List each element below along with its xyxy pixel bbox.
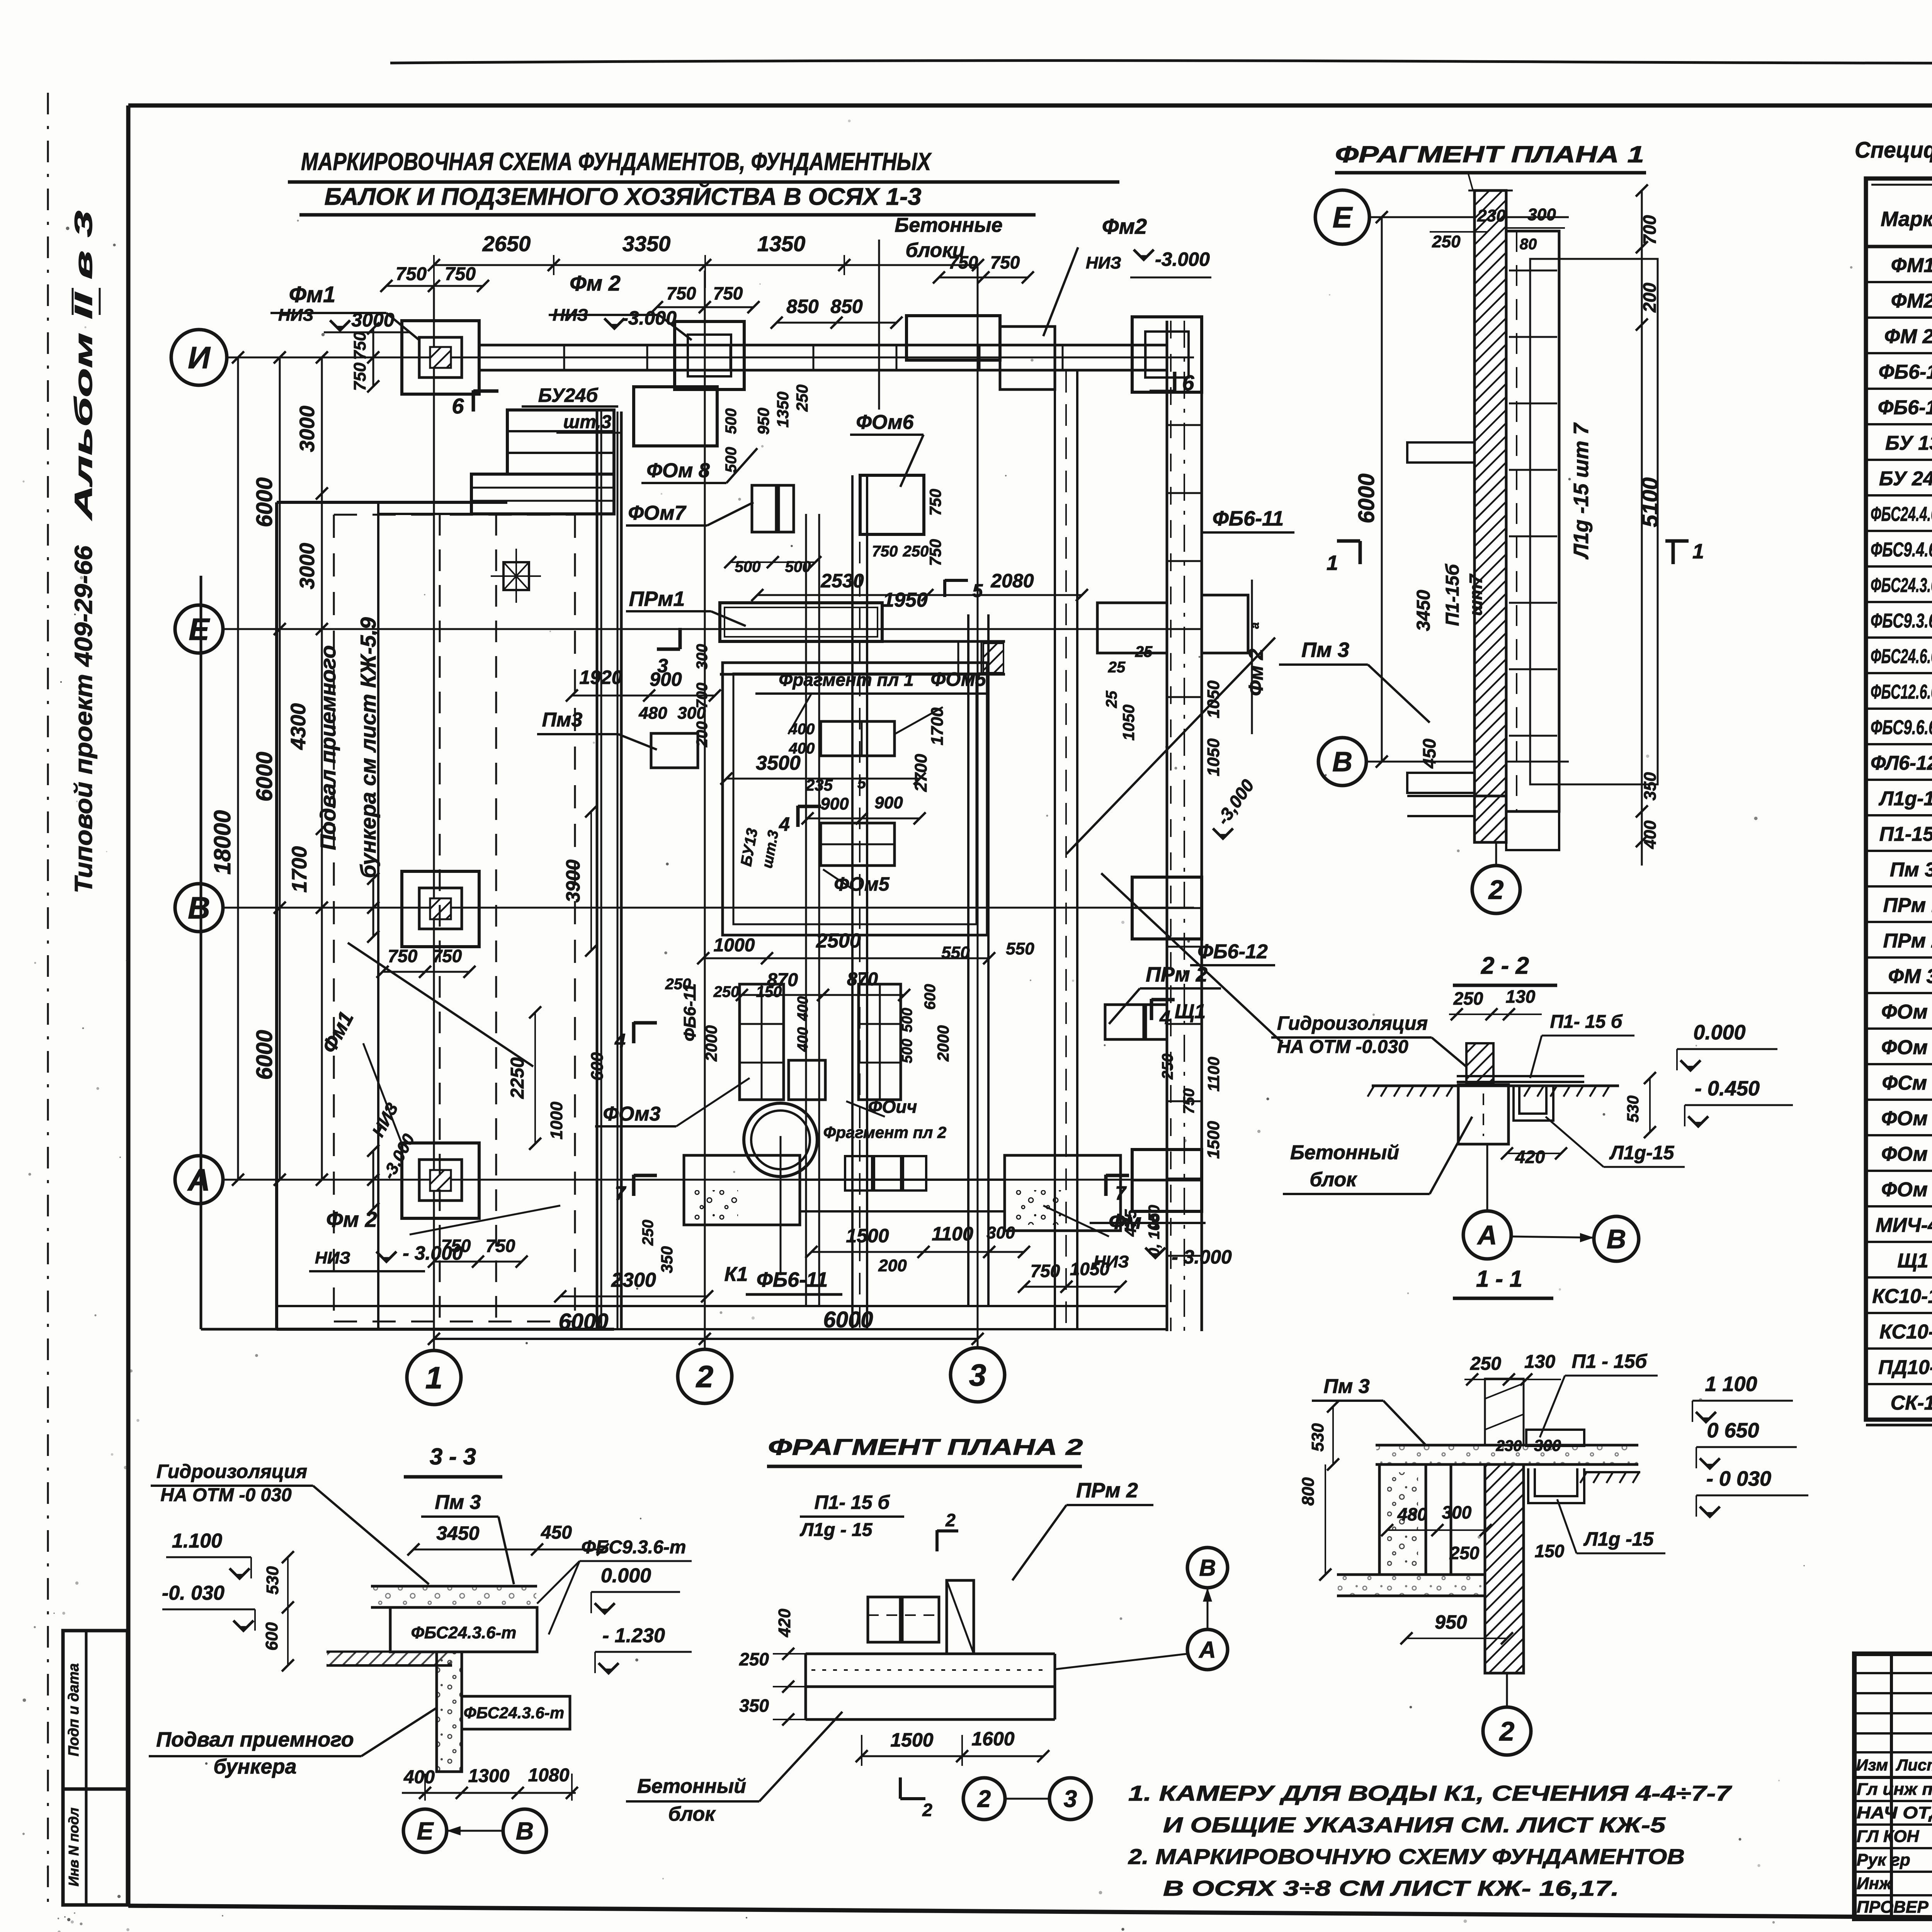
fragment1 vertical dim 6000	[1381, 217, 1383, 762]
svg-text:6000: 6000	[252, 752, 277, 801]
foundation FM at V/1	[402, 871, 479, 947]
svg-text:ФБС12.6.6-т: ФБС12.6.6-т	[1871, 681, 1932, 703]
svg-text:Л1g -15: Л1g -15	[1583, 1528, 1654, 1550]
left margin dash-dot line	[47, 93, 49, 1913]
svg-text:750: 750	[872, 543, 898, 560]
FOm5 upper rect	[821, 721, 895, 756]
svg-text:3450: 3450	[1413, 590, 1434, 631]
svg-text:300: 300	[1534, 1436, 1561, 1454]
3-3 left floor slab	[327, 1651, 452, 1653]
wall strip near axis 2	[851, 475, 854, 1329]
svg-text:230: 230	[1496, 1437, 1522, 1454]
svg-text:750: 750	[713, 283, 743, 303]
svg-text:Е: Е	[189, 612, 210, 646]
svg-text:350: 350	[739, 1696, 769, 1716]
svg-text:2000: 2000	[934, 1025, 952, 1061]
svg-text:блок: блок	[1310, 1168, 1357, 1191]
FOm5 lower rect	[821, 823, 895, 866]
svg-text:5: 5	[857, 775, 866, 792]
beam band below E	[720, 640, 1005, 643]
svg-text:шт.3: шт.3	[563, 412, 612, 432]
svg-text:250: 250	[793, 384, 811, 412]
svg-text:0 650: 0 650	[1707, 1419, 1759, 1442]
svg-text:900: 900	[874, 793, 903, 812]
svg-text:400: 400	[1641, 820, 1660, 849]
fragment1 bottom left stub	[1407, 795, 1475, 797]
svg-text:Подвал приемного: Подвал приемного	[316, 645, 340, 850]
svg-text:2700: 2700	[912, 754, 930, 792]
svg-text:25: 25	[1135, 643, 1153, 660]
svg-text:1100: 1100	[1204, 1057, 1223, 1092]
svg-text:ФОм5: ФОм5	[834, 873, 890, 895]
outer-left wall line	[200, 576, 202, 1329]
section mark 6 left	[472, 390, 475, 412]
svg-text:1. КАМЕРУ ДЛЯ ВОДЫ К1, СЕЧ: 1. КАМЕРУ ДЛЯ ВОДЫ К1, СЕЧЕНИЯ 4-4÷7-7	[1128, 1781, 1733, 1805]
svg-text:В: В	[516, 1817, 534, 1845]
fragment1 wall hatched	[1475, 190, 1506, 841]
svg-text:ФБ6-12: ФБ6-12	[1878, 396, 1932, 419]
svg-text:1.100: 1.100	[172, 1530, 222, 1552]
fragment1 axis circle E	[1315, 190, 1369, 244]
svg-text:1080: 1080	[528, 1765, 570, 1786]
svg-text:Бетонный: Бетонный	[637, 1775, 746, 1798]
svg-text:400: 400	[795, 996, 811, 1021]
3-3 lower block	[462, 1696, 570, 1729]
svg-text:СК-1: СК-1	[1891, 1392, 1932, 1414]
2-2 ground line	[1372, 1085, 1619, 1087]
big diagonal leader right	[1066, 638, 1275, 854]
svg-text:500: 500	[785, 558, 811, 575]
section mark 6 right	[1173, 372, 1177, 392]
svg-text:750: 750	[350, 362, 369, 391]
svg-text:В: В	[1607, 1224, 1626, 1254]
1-1 trough right	[1528, 1468, 1584, 1503]
axis circle A	[175, 1156, 223, 1204]
svg-text:ФОм 6: ФОм 6	[1881, 1107, 1932, 1130]
svg-text:550: 550	[1006, 939, 1034, 958]
svg-text:400: 400	[795, 1027, 811, 1052]
axis-3 wall strip	[967, 614, 969, 1306]
1-1 lid plate right	[1526, 1430, 1584, 1446]
K1 well circle	[744, 1103, 817, 1177]
1-1 central hatched wall upper	[1485, 1379, 1524, 1445]
svg-text:БУ 24б: БУ 24б	[1879, 468, 1932, 490]
fundament beam row along axis I	[479, 344, 1167, 347]
FOm3 tall block left	[740, 984, 784, 1100]
Pm3 notch	[651, 733, 698, 768]
svg-text:П1- 15 б: П1- 15 б	[1550, 1012, 1623, 1032]
dim 750/750 column I	[372, 328, 374, 386]
svg-text:ᵃ: ᵃ	[1248, 622, 1267, 629]
title block signature rows	[1854, 1800, 1932, 1802]
svg-text:300: 300	[1442, 1502, 1472, 1522]
svg-text:4300: 4300	[287, 703, 310, 750]
svg-text:0.000: 0.000	[1693, 1021, 1745, 1044]
svg-text:200: 200	[1639, 282, 1660, 313]
3-3 top slab	[371, 1585, 537, 1588]
svg-text:ПД10-1: ПД10-1	[1878, 1356, 1932, 1379]
svg-text:КС10-1А: КС10-1А	[1872, 1285, 1932, 1308]
small blocks below fragment label	[845, 1156, 872, 1190]
svg-text:1050: 1050	[1119, 704, 1138, 740]
svg-text:ФБС24.4.6-т: ФБС24.4.6-т	[1871, 503, 1932, 526]
svg-text:БАЛОК И ПОДЗЕМНОГО ХОЗЯЙ: БАЛОК И ПОДЗЕМНОГО ХОЗЯЙСТВА В ОСЯХ 1-3	[325, 183, 922, 210]
svg-text:-3.000: -3.000	[1155, 248, 1210, 270]
svg-text:25: 25	[1103, 690, 1120, 708]
svg-text:350: 350	[1641, 772, 1660, 801]
dashed service lines	[439, 514, 441, 1321]
svg-text:Фрагмент пл 1: Фрагмент пл 1	[779, 670, 913, 690]
svg-text:700: 700	[1639, 215, 1660, 245]
svg-text:530: 530	[1624, 1095, 1642, 1122]
svg-text:2300: 2300	[611, 1269, 656, 1291]
svg-text:1050: 1050	[1204, 680, 1223, 718]
svg-text:1000: 1000	[714, 935, 755, 956]
svg-text:750: 750	[486, 1236, 515, 1256]
svg-text:2: 2	[696, 1359, 714, 1394]
svg-text:А: А	[1477, 1220, 1497, 1250]
svg-text:1 - 1: 1 - 1	[1476, 1266, 1522, 1292]
svg-text:П1-15б: П1-15б	[1879, 823, 1932, 845]
svg-text:НИЗ: НИЗ	[315, 1248, 350, 1267]
blocks along axis A right	[1005, 1155, 1121, 1231]
left stamp box podp i data	[63, 1631, 128, 1789]
svg-text:ФМ 3: ФМ 3	[1888, 965, 1932, 988]
FM2a foundation top right	[1132, 317, 1202, 392]
svg-text:3350: 3350	[622, 231, 671, 256]
fr2 section mark 2 bottom	[899, 1777, 902, 1799]
svg-text:ФОм 3: ФОм 3	[1881, 1001, 1932, 1023]
right wall block at V	[1132, 877, 1202, 939]
vertical pair left of axis 2	[805, 514, 807, 1306]
svg-text:2500: 2500	[816, 930, 861, 952]
svg-text:ФОм 7: ФОм 7	[1881, 1143, 1932, 1165]
svg-text:В: В	[188, 891, 210, 925]
svg-text:1500: 1500	[846, 1225, 889, 1247]
svg-text:1350: 1350	[774, 391, 792, 427]
svg-text:4: 4	[779, 813, 790, 835]
svg-text:ПРОВЕР: ПРОВЕР	[1857, 1898, 1929, 1917]
svg-text:400: 400	[789, 721, 815, 738]
3-3 wall with dots	[437, 1652, 462, 1772]
block right of FM2 top	[1000, 327, 1055, 389]
ladder block below BU24b	[471, 474, 614, 514]
svg-text:250: 250	[739, 1649, 769, 1669]
svg-text:ФРАГМЕНТ ПЛАНА 1: ФРАГМЕНТ ПЛАНА 1	[1335, 141, 1644, 167]
FOm6 square	[860, 475, 924, 534]
PRm1 rect	[720, 603, 882, 641]
svg-text:200: 200	[878, 1256, 907, 1275]
svg-text:Инж: Инж	[1857, 1874, 1893, 1893]
svg-text:НА ОТМ -0 030: НА ОТМ -0 030	[160, 1485, 292, 1505]
svg-text:П1- 15 б: П1- 15 б	[815, 1492, 891, 1513]
axis circle E	[175, 605, 223, 653]
svg-text:1: 1	[425, 1361, 443, 1395]
svg-text:П1 - 15б: П1 - 15б	[1572, 1350, 1648, 1372]
1-1 ground right	[1584, 1471, 1640, 1473]
2-2 channel trough	[1514, 1085, 1553, 1121]
left stamp box inv n podl	[63, 1789, 128, 1905]
section mark 7 right	[1104, 1175, 1108, 1196]
svg-text:250: 250	[665, 976, 691, 993]
svg-text:ФБ6-12: ФБ6-12	[1197, 940, 1268, 963]
svg-text:НИЗ: НИЗ	[278, 306, 314, 325]
svg-text:6: 6	[452, 394, 464, 418]
title block vertical dividers left part	[1890, 1654, 1893, 1919]
svg-text:3000: 3000	[351, 309, 394, 331]
svg-text:А: А	[1198, 1637, 1216, 1663]
axis line A	[222, 1179, 1194, 1181]
svg-text:130: 130	[1524, 1352, 1555, 1372]
svg-text:250: 250	[713, 983, 740, 1000]
section mark 4 right	[1150, 999, 1153, 1020]
svg-text:3000: 3000	[296, 406, 319, 452]
top dim chain 2650/3350/1350	[434, 264, 978, 266]
svg-text:Е: Е	[1333, 201, 1353, 234]
svg-text:400: 400	[403, 1767, 435, 1787]
svg-text:450: 450	[541, 1522, 572, 1543]
svg-text:ФБС24.3.6-т: ФБС24.3.6-т	[411, 1623, 517, 1642]
fragment1 channel inner rect	[1530, 259, 1658, 784]
svg-text:1350: 1350	[757, 231, 806, 256]
right wall block at A	[1132, 1150, 1202, 1211]
svg-text:Изм: Изм	[1856, 1756, 1888, 1774]
FM2 block right of 2	[906, 316, 1000, 360]
svg-text:Пм 3: Пм 3	[435, 1491, 481, 1514]
svg-text:Пм 3: Пм 3	[1890, 859, 1932, 881]
svg-text:Фм 2: Фм 2	[326, 1207, 377, 1231]
svg-text:НАЧ ОТД: НАЧ ОТД	[1857, 1803, 1932, 1822]
fragment1 wall top break	[1468, 190, 1513, 192]
svg-text:1100: 1100	[932, 1223, 973, 1245]
fr2 wall bar	[947, 1580, 974, 1654]
svg-text:Бетонный: Бетонный	[1290, 1141, 1399, 1164]
bottom dim chain 6000 6000	[434, 1338, 978, 1340]
noise	[84, 326, 86, 328]
svg-text:- 0.450: - 0.450	[1695, 1077, 1760, 1100]
svg-text:МИЧ-46: МИЧ-46	[1876, 1214, 1932, 1236]
axis line I (И)	[227, 357, 1194, 359]
svg-text:ФОм7: ФОм7	[628, 502, 686, 524]
svg-text:5: 5	[973, 581, 983, 601]
svg-text:250: 250	[1449, 1543, 1480, 1563]
svg-text:Спецификация элементов к ма: Спецификация элементов к маркировочной с…	[1855, 138, 1932, 163]
svg-text:2: 2	[1499, 1716, 1515, 1747]
svg-text:-0. 030: -0. 030	[162, 1582, 224, 1604]
svg-text:4: 4	[614, 1030, 626, 1051]
svg-text:750: 750	[432, 946, 462, 966]
svg-text:В: В	[1332, 747, 1352, 777]
svg-text:130: 130	[1506, 986, 1536, 1007]
vertical dim chain 6000s	[279, 357, 281, 1180]
svg-text:-3.000: -3.000	[622, 307, 677, 329]
svg-text:530: 530	[1308, 1423, 1327, 1452]
svg-text:530: 530	[263, 1566, 282, 1595]
fragment1 section marks 1	[1337, 539, 1360, 543]
svg-text:80: 80	[1520, 236, 1537, 253]
fr2 slab band 1	[806, 1653, 1055, 1655]
svg-text:3: 3	[657, 655, 668, 677]
svg-text:750: 750	[926, 539, 944, 566]
FOm4 square	[789, 1060, 825, 1100]
3-3 axis circles E V	[403, 1809, 447, 1852]
svg-text:0.000: 0.000	[601, 1565, 651, 1587]
svg-text:И: И	[188, 340, 211, 375]
svg-text:Лист: Лист	[1895, 1756, 1932, 1774]
svg-text:950: 950	[1435, 1611, 1467, 1633]
vertical dim chain 18000	[237, 357, 239, 1180]
svg-text:Е: Е	[417, 1817, 434, 1845]
svg-text:ПРм 2: ПРм 2	[1076, 1479, 1138, 1502]
svg-text:БУ 13: БУ 13	[1885, 432, 1932, 454]
svg-text:250: 250	[1453, 988, 1483, 1009]
svg-text:ФБС9.6.6-т: ФБС9.6.6-т	[1871, 716, 1932, 739]
svg-text:ФЛ6-12-4: ФЛ6-12-4	[1871, 752, 1932, 774]
svg-text:18000: 18000	[209, 810, 235, 875]
svg-text:1: 1	[1692, 540, 1704, 563]
2-2 axis circles A B	[1463, 1211, 1511, 1259]
scan fold line top	[390, 61, 1932, 63]
axis circle I	[171, 330, 227, 385]
svg-text:5100: 5100	[1638, 477, 1663, 527]
spec table grid	[1866, 179, 1932, 1420]
svg-text:ФОм 8: ФОм 8	[1881, 1179, 1932, 1201]
svg-text:500: 500	[723, 447, 740, 473]
fr2 lids	[868, 1597, 900, 1642]
svg-text:Пм3: Пм3	[542, 709, 583, 731]
basement dashed inner rectangle	[333, 515, 335, 1321]
svg-text:500: 500	[735, 558, 761, 575]
svg-text:бункера см лист КЖ-5,9: бункера см лист КЖ-5,9	[356, 617, 380, 878]
svg-text:450: 450	[1419, 738, 1439, 769]
svg-text:- 0 030: - 0 030	[1706, 1467, 1771, 1490]
1-1 central hatched wall	[1485, 1464, 1524, 1673]
svg-text:- 1.230: - 1.230	[602, 1624, 665, 1647]
svg-text:2: 2	[922, 1800, 932, 1820]
svg-text:Гидроизоляция: Гидроизоляция	[156, 1461, 307, 1482]
sheet frame	[128, 104, 1932, 108]
svg-text:ФОм5: ФОм5	[930, 668, 986, 690]
1-1 top slab	[1376, 1444, 1638, 1447]
svg-text:3: 3	[969, 1358, 986, 1392]
FM2 block top left of 2	[675, 321, 744, 389]
dim 750/750 column V	[372, 879, 374, 937]
right wall second strip	[1054, 371, 1056, 1329]
svg-text:300: 300	[1527, 205, 1556, 224]
title block thin top rows	[1854, 1672, 1932, 1674]
axis circle V	[175, 884, 223, 932]
2-2 wall above ground	[1466, 1043, 1493, 1084]
svg-text:Марка: Марка	[1881, 207, 1932, 231]
svg-text:250: 250	[903, 543, 929, 560]
svg-text:500: 500	[723, 408, 740, 434]
svg-text:420: 420	[775, 1609, 794, 1638]
equipment room double rectangle	[723, 663, 987, 935]
svg-text:1050: 1050	[1204, 738, 1223, 776]
svg-text:230: 230	[1477, 206, 1506, 225]
svg-text:МАРКИРОВОЧНАЯ СХЕМА ФУНДАМЕН: МАРКИРОВОЧНАЯ СХЕМА ФУНДАМЕНТОВ, ФУНДАМЕ…	[301, 148, 932, 175]
svg-text:блок: блок	[668, 1803, 716, 1825]
svg-text:6000: 6000	[252, 477, 277, 527]
central wall double lines	[596, 412, 599, 1329]
svg-text:ФБ6-11: ФБ6-11	[757, 1268, 828, 1291]
svg-text:3500: 3500	[756, 752, 801, 774]
2-2 slab on ground	[1457, 1081, 1584, 1083]
svg-text:550: 550	[941, 943, 970, 962]
foundation FM at A/1	[402, 1143, 479, 1218]
dim 750 750 over FM1	[411, 285, 460, 287]
block BU24b	[507, 410, 614, 474]
svg-text:ФМ2: ФМ2	[1891, 290, 1932, 312]
svg-text:ФБ6-11: ФБ6-11	[1213, 507, 1284, 530]
leader arrow to basement	[348, 943, 533, 1066]
svg-text:2. МАРКИРОВОЧНУЮ СХЕМУ ФУНДА: 2. МАРКИРОВОЧНУЮ СХЕМУ ФУНДАМЕНТОВ	[1128, 1844, 1685, 1869]
svg-text:800: 800	[1299, 1477, 1318, 1506]
section mark 4 mid	[796, 806, 800, 827]
svg-text:Щ1: Щ1	[1897, 1250, 1928, 1272]
svg-text:И ОБЩИЕ УКАЗАНИЯ СМ. ЛИС: И ОБЩИЕ УКАЗАНИЯ СМ. ЛИСТ КЖ-5	[1163, 1813, 1666, 1837]
fr2 circles 2 3 bottom	[963, 1778, 1005, 1820]
small anchor mark at E	[503, 562, 529, 590]
svg-text:Подп и дата: Подп и дата	[66, 1663, 82, 1756]
svg-text:Щ1: Щ1	[1175, 1000, 1206, 1023]
svg-text:150: 150	[1535, 1541, 1565, 1561]
svg-text:350: 350	[658, 1246, 676, 1273]
svg-text:ФМ 2ᵃ: ФМ 2ᵃ	[1884, 325, 1932, 348]
1-1 axis circle 2	[1483, 1707, 1531, 1755]
svg-text:1920: 1920	[579, 667, 622, 688]
svg-text:Инв N подл: Инв N подл	[66, 1808, 82, 1886]
svg-text:Гидроизоляция: Гидроизоляция	[1277, 1012, 1428, 1034]
svg-text:4: 4	[1159, 1007, 1170, 1028]
svg-text:750: 750	[388, 946, 418, 966]
svg-text:750: 750	[350, 332, 369, 360]
svg-text:ФБС9.3.6-т: ФБС9.3.6-т	[1871, 610, 1932, 632]
svg-text:Л1g -15 шт 7: Л1g -15 шт 7	[1570, 422, 1593, 560]
svg-text:25: 25	[1108, 659, 1126, 676]
svg-text:750: 750	[396, 264, 427, 284]
svg-text:НИЗ: НИЗ	[553, 306, 588, 325]
svg-text:Альбом II в 3: Альбом II в 3	[70, 211, 97, 521]
svg-text:750: 750	[445, 264, 476, 284]
svg-text:бункера: бункера	[213, 1755, 296, 1778]
svg-text:НИЗ: НИЗ	[1094, 1252, 1129, 1271]
svg-text:480: 480	[1397, 1504, 1427, 1524]
axis line E	[222, 628, 1194, 630]
svg-text:Фм 2: Фм 2	[570, 271, 621, 295]
svg-text:ФБС24.3.6-т: ФБС24.3.6-т	[464, 1704, 564, 1722]
svg-text:750: 750	[441, 1236, 471, 1256]
svg-text:7: 7	[615, 1182, 626, 1204]
svg-text:1: 1	[1327, 551, 1338, 575]
svg-text:1000: 1000	[547, 1102, 566, 1139]
svg-text:3: 3	[1064, 1786, 1077, 1813]
foundation FM1 at I/1	[402, 321, 479, 394]
fragment1 axis circle 2	[1472, 866, 1520, 913]
axis line 2	[704, 270, 706, 1349]
svg-text:Фрагмент пл 2: Фрагмент пл 2	[823, 1123, 947, 1141]
svg-text:6000: 6000	[1354, 473, 1379, 523]
axis circle 1	[407, 1350, 461, 1405]
svg-text:ПРм1: ПРм1	[629, 587, 685, 611]
dim 750/750 column A	[372, 1151, 374, 1209]
axis circle 3	[951, 1348, 1005, 1402]
svg-text:150: 150	[756, 983, 782, 1000]
svg-text:750: 750	[990, 252, 1020, 272]
fr2 section mark 2 top	[935, 1530, 939, 1551]
svg-text:235: 235	[805, 776, 833, 794]
svg-text:300: 300	[677, 704, 706, 723]
